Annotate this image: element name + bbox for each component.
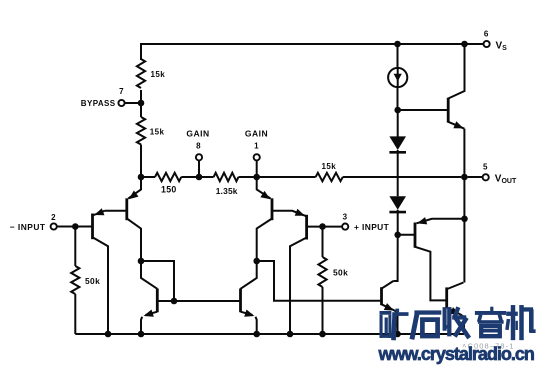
wire: Q6 collector: [241, 261, 257, 289]
junction: Q4 collector/ground: [287, 331, 294, 338]
resistor R4 1.35k: [214, 173, 239, 181]
current source I1 circle: [388, 68, 407, 87]
wire: Vs top rail: [141, 44, 483, 60]
svg-text:5: 5: [483, 163, 488, 172]
transistor Q1 base bar: [91, 214, 94, 240]
junction: R7/ground: [319, 331, 326, 338]
wire: R3 to R4: [181, 176, 213, 178]
current source I1 vertical: [397, 68, 399, 87]
resistor R3 150: [155, 173, 181, 181]
junction: +input/R7 node: [319, 223, 326, 230]
wire: R7 to ground rail: [322, 287, 324, 334]
junction: Q7 collector/Vs: [461, 41, 468, 48]
terminal pin 5 Vout: [483, 174, 489, 180]
watermark logo character shou: [443, 309, 468, 336]
svg-text:3: 3: [343, 212, 348, 221]
wire: gain1 stub: [256, 160, 258, 177]
junction: Vout node: [461, 174, 468, 181]
transistor Q10 base bar: [445, 287, 448, 308]
junction: Q8 base node: [394, 232, 401, 239]
watermark logo character yin: [475, 307, 506, 337]
wire: mirror output to Q9 base: [257, 261, 382, 301]
resistor R2 15k (lower bias): [137, 117, 145, 145]
emitter arrow Q5 (NPN): [144, 310, 154, 317]
wire: Q4 base to +input: [307, 226, 343, 228]
wire: Q1 collector to ground rail: [93, 237, 109, 334]
wire: Q8 emitter to Vout line: [417, 219, 465, 224]
watermark logo character shi: [412, 310, 441, 337]
wire: Q5 collector: [141, 261, 157, 289]
wire: -input to Q1 base: [57, 226, 93, 228]
wire: Q8 collector to Q10 base: [415, 247, 447, 301]
wire: Q7 emitter to Vout node: [463, 129, 465, 177]
terminal pin 1 GAIN: [254, 154, 260, 160]
wire: Vout node to terminal: [468, 176, 483, 178]
junction: Q1 collector/ground: [105, 331, 112, 338]
svg-text:1.35k: 1.35k: [216, 186, 238, 196]
junction: gain1 node: [253, 174, 260, 181]
watermark logo character ji: [506, 307, 535, 338]
junction: mirror base tie: [171, 298, 178, 305]
svg-text:15k: 15k: [151, 70, 166, 79]
svg-text:7: 7: [119, 87, 124, 96]
diode D1 triangle: [389, 136, 406, 150]
svg-text:15k: 15k: [322, 162, 337, 171]
wire: Q3 collector to mirror: [257, 219, 272, 259]
resistor R1 15k (top bias): [137, 59, 145, 88]
svg-text:www.crystalradio.cn: www.crystalradio.cn: [378, 344, 534, 364]
svg-text:VS: VS: [496, 41, 508, 53]
terminal pin 3 +INPUT: [342, 224, 348, 230]
svg-text:8: 8: [196, 141, 201, 150]
wire: Q2 collector to mirror: [127, 219, 141, 259]
emitter arrow Q10 (NPN): [450, 307, 460, 315]
wire: Q7 base: [398, 109, 449, 111]
wire: D2 to Q8 base node: [397, 210, 399, 235]
emitter arrow Q7 (NPN): [453, 121, 463, 128]
wire: Q5 emitter diagonal: [146, 312, 158, 315]
wire: bias chain between R1 and R2: [140, 90, 142, 117]
svg-text:1: 1: [254, 141, 259, 150]
emitter arrow Q2 (PNP): [129, 191, 139, 200]
junction: Q7 base node: [394, 107, 401, 114]
svg-text:6: 6: [484, 30, 489, 39]
wire: Q10 emitter diagonal: [447, 307, 461, 314]
terminal pin 2 -INPUT: [51, 223, 57, 229]
wire: Q10 collector diagonal: [447, 283, 463, 290]
wire: Q2 emitter from bias node: [128, 177, 141, 199]
wire: gain1 node to R5: [257, 176, 316, 178]
emitter arrow Q9 (NPN): [384, 303, 394, 311]
svg-text:50k: 50k: [333, 268, 348, 278]
transistor Q3 base bar: [271, 198, 274, 220]
wire: D1 to D2: [397, 150, 399, 196]
wire: Q3 emitter from gain1 node: [257, 177, 271, 199]
wire: gain8 stub: [198, 160, 200, 177]
wire: node to R3: [141, 176, 155, 178]
terminal pin 6 Vs: [484, 41, 490, 47]
wire: ground rail: [75, 333, 464, 335]
wire: R5 to Vout node: [343, 176, 461, 178]
junction: mirror output node: [253, 258, 260, 265]
resistor R5 15k (feedback): [316, 173, 343, 181]
transistor Q9 base bar: [380, 287, 383, 305]
svg-text:GAIN: GAIN: [245, 129, 268, 139]
junction: Q6 emitter/ground: [253, 331, 260, 338]
svg-text:BYPASS: BYPASS: [81, 99, 116, 108]
resistor R7 50k (right): [318, 257, 326, 287]
wire: Q5 emitter to ground rail: [141, 317, 142, 334]
junction: Q8 emitter/Vout line: [461, 216, 468, 223]
wire: Q10 emitter to ground rail end: [461, 315, 465, 335]
junction: bypass node: [138, 100, 145, 107]
wire: bypass stub: [125, 102, 141, 104]
wire: bias chain R2 to gain node: [140, 145, 142, 178]
junction: bias/R3 node: [138, 174, 145, 181]
junction: mirror diode node: [138, 258, 145, 265]
transistor Q8 base bar: [414, 223, 417, 248]
wire: Q7 collector to Vs rail: [448, 44, 464, 99]
diode D1 bar: [389, 151, 406, 154]
emitter arrow Q4 (PNP): [295, 209, 305, 216]
wire: Q9 emitter diagonal: [382, 304, 395, 310]
wire: Q6 emitter diagonal: [241, 312, 253, 315]
junction: Q5 emitter/ground: [138, 331, 145, 338]
wire: R6 to ground rail: [74, 294, 76, 334]
terminal pin 7 BYPASS: [118, 100, 124, 106]
wire: Q3 base to Q4 emitter: [272, 211, 307, 217]
wire: Q1 emitter to Q2 base: [105, 210, 127, 212]
wire: Q5 collector-base tie: [141, 261, 174, 301]
svg-text:− INPUT: − INPUT: [10, 222, 46, 232]
diode D2 triangle: [389, 196, 406, 210]
watermark logo character kuang: [380, 309, 409, 338]
diode D2 bar: [389, 211, 406, 214]
wire: bias node to Q9 collector: [393, 235, 397, 281]
wire: Q7 emitter diagonal: [448, 122, 464, 129]
transistor Q5 base bar: [156, 289, 159, 313]
wire: Q9 emitter to ground rail: [395, 311, 398, 335]
wire: Q1 emitter diagonal: [93, 211, 105, 216]
svg-text:GAIN: GAIN: [186, 129, 209, 139]
wire: Q9 collector diagonal: [382, 281, 393, 288]
wire: R4 to gain1 node: [239, 176, 257, 178]
svg-text:15k: 15k: [150, 128, 165, 137]
wire: current source branch upper: [397, 44, 399, 110]
svg-text:50k: 50k: [85, 276, 100, 286]
wire: to Vs terminal: [465, 43, 484, 45]
resistor R6 50k (left): [71, 266, 79, 294]
emitter arrow Q8 (PNP): [417, 217, 427, 224]
wire: node to D1: [397, 110, 399, 137]
svg-text:+ INPUT: + INPUT: [354, 222, 390, 232]
emitter arrow Q1 (PNP): [94, 208, 104, 215]
svg-text:2: 2: [51, 213, 56, 222]
wire: +input node to R7: [322, 227, 324, 257]
wire: Q6 emitter to ground rail: [256, 317, 257, 334]
junction: Q9 emitter/ground: [394, 331, 401, 338]
junction: Vs/current source: [394, 41, 401, 48]
junction: gain8 node: [196, 174, 203, 181]
transistor Q4 base bar: [305, 215, 308, 240]
wire: Q8 base: [398, 234, 415, 236]
emitter arrow Q6 (NPN): [244, 310, 254, 317]
svg-text:150: 150: [161, 184, 177, 194]
wire: Vout vertical to Q10 collector: [463, 177, 465, 283]
wire: mirror base rail: [157, 300, 240, 302]
emitter arrow Q3 (PNP): [260, 191, 270, 199]
wire: Q4 collector to ground rail: [290, 238, 307, 335]
transistor Q2 base bar: [125, 198, 128, 220]
transistor Q7 base bar: [447, 98, 450, 123]
wire: -input node to R6: [74, 227, 76, 267]
svg-text:VOUT: VOUT: [495, 174, 517, 186]
current source I1 arrow: [394, 74, 402, 82]
terminal pin 8 GAIN: [196, 154, 202, 160]
junction: -input/R6 node: [72, 223, 79, 230]
transistor Q6 base bar: [239, 289, 242, 313]
